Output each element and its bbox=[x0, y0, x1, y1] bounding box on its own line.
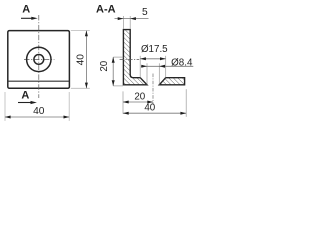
base right part (right of hole), hatched bbox=[159, 78, 184, 85]
svg-text:40: 40 bbox=[144, 103, 155, 114]
svg-text:20: 20 bbox=[99, 60, 110, 71]
svg-text:A-A: A-A bbox=[96, 4, 116, 16]
dimension D8.4 bbox=[146, 63, 148, 84]
hole circle D8.4 bbox=[34, 55, 44, 65]
extension line section bottom-left (light) bbox=[122, 91, 124, 113]
svg-text:40: 40 bbox=[33, 106, 45, 117]
dimension D17.5 bbox=[139, 56, 141, 78]
dimension 40 bottom section (horizontal) bbox=[123, 112, 186, 114]
section arrow bottom bbox=[18, 102, 32, 104]
svg-text:5: 5 bbox=[142, 7, 148, 18]
extension line section bottom-right (light) bbox=[185, 89, 187, 117]
wall edge line bbox=[8, 80, 70, 82]
svg-text:A: A bbox=[21, 89, 29, 101]
dimension 5 (wall thickness) bbox=[122, 16, 124, 29]
extension line bottom-left (light) bbox=[4, 92, 6, 121]
svg-text:Ø8.4: Ø8.4 bbox=[171, 57, 193, 68]
dimension 40 bottom (horizontal) bbox=[5, 116, 69, 118]
counterbore circle D17.5 bbox=[27, 47, 51, 71]
svg-text:20: 20 bbox=[134, 92, 145, 103]
section arrow top bbox=[21, 17, 33, 19]
dimension 20 bottom (horizontal) bbox=[123, 101, 153, 103]
extension line right-bottom (light) bbox=[71, 87, 90, 89]
horizontal centerline bbox=[24, 58, 54, 60]
vertical hole centerline bbox=[152, 74, 154, 105]
extension line bottom-right (light) bbox=[68, 92, 70, 121]
dimension 40 right (vertical) bbox=[85, 31, 87, 89]
dimension 20 left (vertical) bbox=[113, 56, 123, 58]
extension line right-top (light) bbox=[71, 30, 90, 32]
vertical centerline bbox=[38, 15, 40, 98]
plate outline (square 40x40) bbox=[8, 31, 70, 89]
horizontal centerline through wall bbox=[120, 59, 140, 61]
svg-text:Ø17.5: Ø17.5 bbox=[141, 44, 168, 55]
L-profile left part (wall + base left of hole), hatched bbox=[123, 30, 147, 85]
svg-text:40: 40 bbox=[76, 54, 87, 66]
svg-text:A: A bbox=[22, 4, 30, 16]
